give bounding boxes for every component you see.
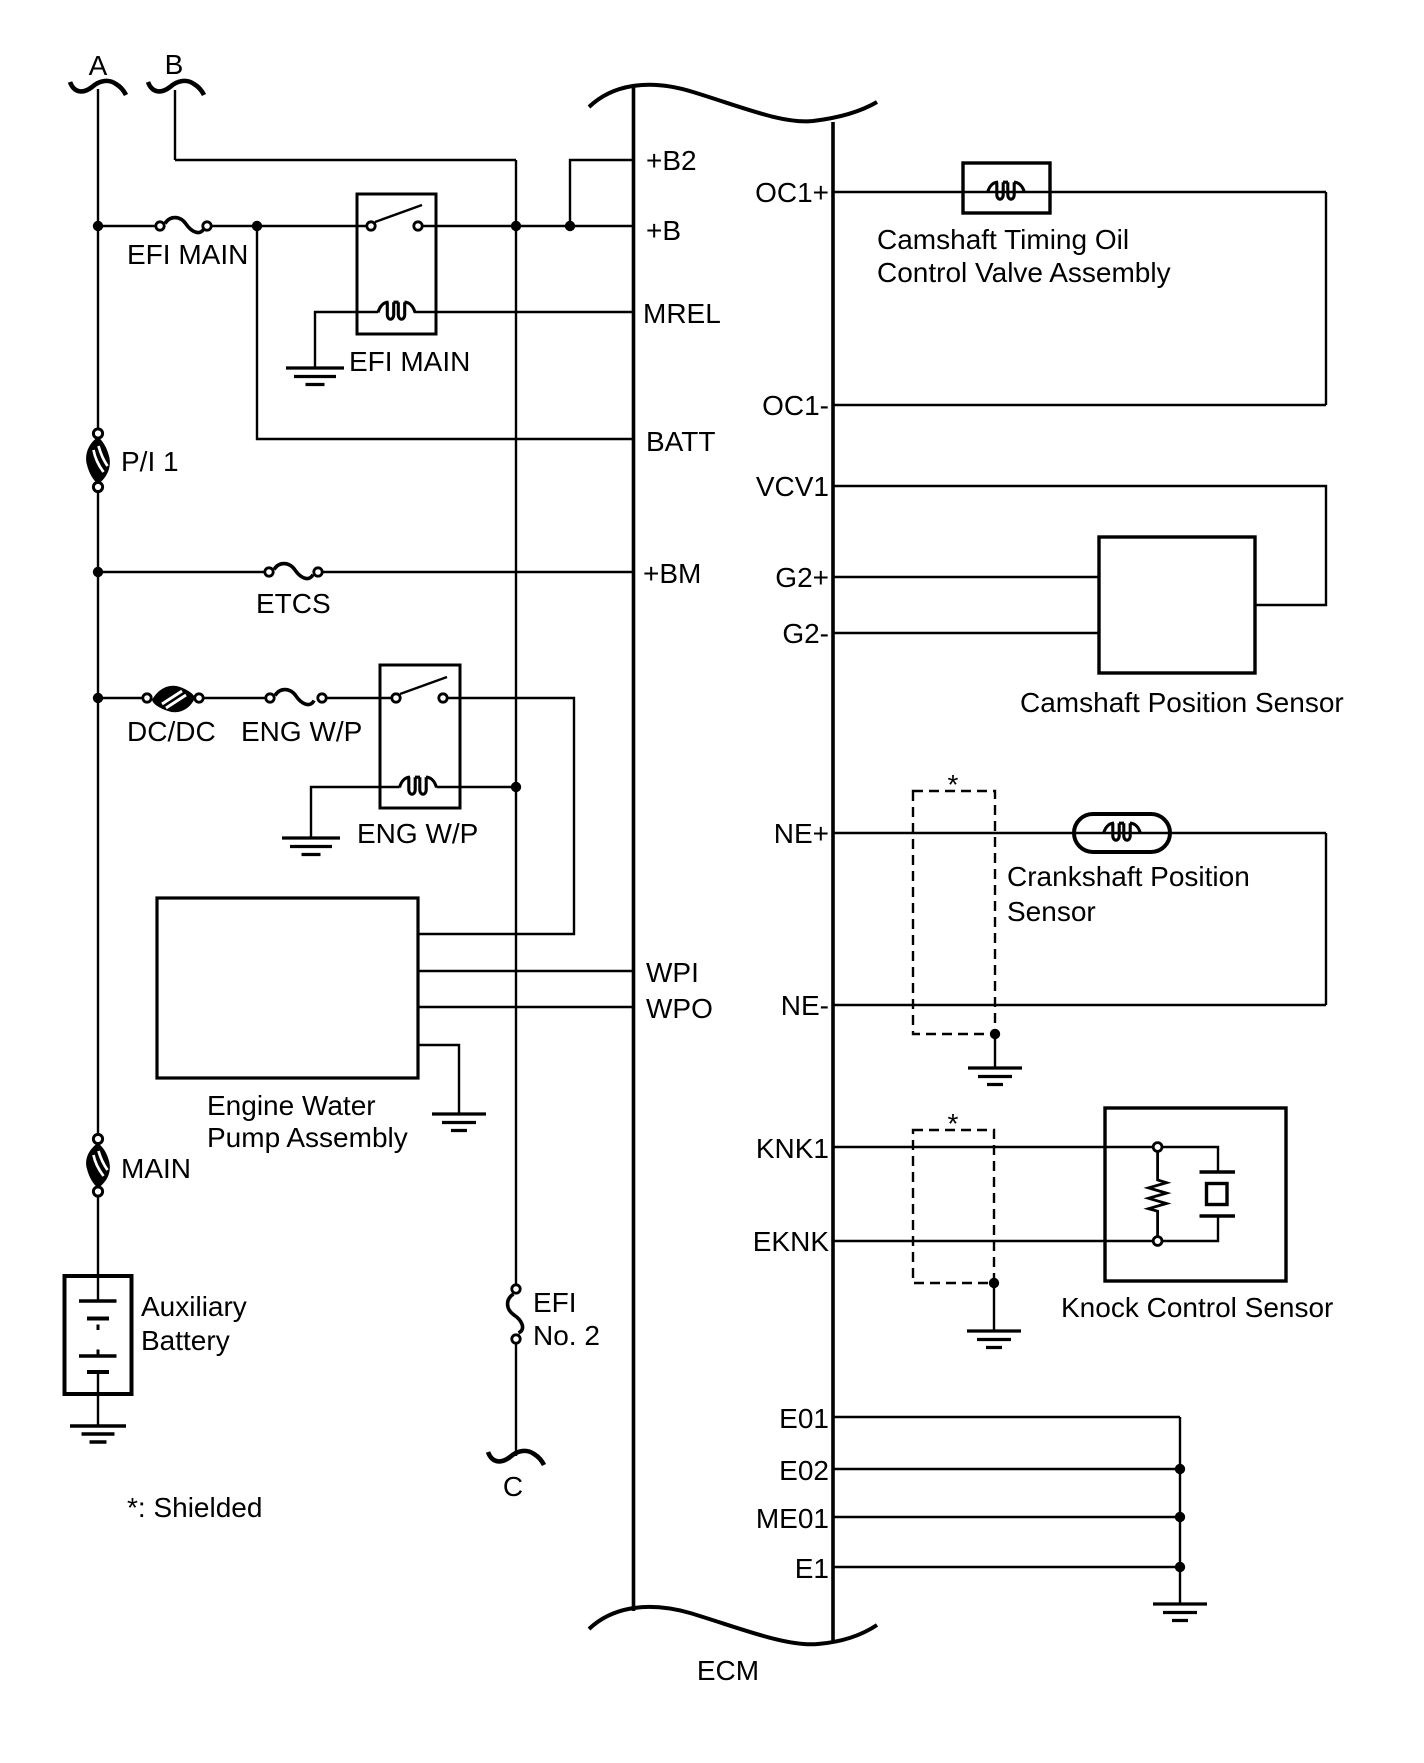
wire +B2 pin stub [570, 160, 634, 226]
node junction +BM [93, 567, 103, 577]
knock piezo bottom plate [1200, 1214, 1236, 1218]
svg-text:WPO: WPO [646, 993, 713, 1024]
battery plate short 2 [87, 1370, 109, 1374]
wire MREL coil left lead [315, 312, 378, 368]
fuse ETCS terminal circles [265, 568, 273, 576]
relay ENG W/P contact circles [392, 694, 400, 702]
ground ECM E lines [1153, 1604, 1207, 1621]
relay ENG W/P coil [400, 777, 437, 794]
svg-text:Battery: Battery [141, 1325, 230, 1356]
relay ENG W/P box [380, 665, 460, 808]
wire A vertical below MAIN to battery [97, 1192, 99, 1276]
crankshaft pickup coil [1104, 823, 1141, 840]
wire relay ENG W/P output [418, 698, 574, 934]
svg-text:*: * [948, 1108, 959, 1139]
wire +B line segment A to fuse [98, 225, 160, 227]
wire B vertical [174, 90, 176, 160]
svg-text:Engine Water: Engine Water [207, 1090, 376, 1121]
svg-text:P/I 1: P/I 1 [121, 446, 179, 477]
fuse EFI No.2 terminal circles [512, 1285, 520, 1293]
svg-text:VCV1: VCV1 [756, 471, 829, 502]
battery plate long 1 [79, 1299, 117, 1302]
svg-text:DC/DC: DC/DC [127, 716, 216, 747]
wire B horizontal to x515 [175, 159, 516, 161]
wire EFI No.2 to connector C [515, 1339, 517, 1456]
svg-text:WPI: WPI [646, 957, 699, 988]
svg-text:EFI MAIN: EFI MAIN [127, 239, 248, 270]
wire NE loop right vertical [1325, 833, 1327, 1005]
relay EFI MAIN coil [378, 302, 415, 319]
svg-text:Camshaft Timing Oil: Camshaft Timing Oil [877, 224, 1129, 255]
node junction KNK shield drain [989, 1278, 999, 1288]
solenoid box camshaft timing OCV [963, 163, 1050, 213]
shield box KNK (dashed) [913, 1130, 994, 1283]
svg-text:A: A [89, 50, 108, 81]
wire G2+ [833, 576, 1099, 578]
fusible link P/I 1 terminal circles [93, 429, 102, 438]
svg-text:EKNK: EKNK [753, 1226, 830, 1257]
svg-text:G2-: G2- [782, 618, 829, 649]
wire NE- [833, 1004, 1326, 1006]
wire battery to ground [97, 1394, 99, 1426]
knock sensor resistor [1149, 1152, 1167, 1236]
noise filter DC/DC terminal circles [143, 694, 151, 702]
wire A vertical below P/I 1 [97, 487, 99, 1139]
knock piezo element square [1207, 1184, 1228, 1205]
wire fuse to relay ENG W/P [322, 697, 396, 699]
svg-text:C: C [503, 1471, 523, 1502]
svg-text:OC1+: OC1+ [755, 177, 829, 208]
svg-text:E01: E01 [779, 1403, 829, 1434]
engine water pump assembly box [157, 898, 418, 1078]
fuse ETCS wave [274, 564, 313, 579]
svg-text:+B2: +B2 [646, 145, 697, 176]
wire A vertical main feed [97, 89, 99, 434]
wire E02 [833, 1468, 1180, 1470]
fuse ENG W/P terminal circles [266, 694, 274, 702]
svg-text:ENG W/P: ENG W/P [357, 818, 478, 849]
svg-text:MAIN: MAIN [121, 1153, 191, 1184]
knock sensor piezo top lead [1163, 1147, 1218, 1172]
svg-text:+B: +B [646, 215, 681, 246]
wire +B line relay to ECM [418, 225, 634, 227]
node junction coil to x515 [511, 782, 521, 792]
wire E01 [833, 1416, 1180, 1418]
wire OC1+ [833, 191, 1326, 193]
svg-text:BATT: BATT [646, 426, 715, 457]
svg-text:ME01: ME01 [756, 1503, 829, 1534]
node junction +B branch to BATT [252, 221, 262, 231]
svg-text:E1: E1 [795, 1553, 829, 1584]
wire vertical x515 from B down to EFI No.2 fuse [515, 160, 517, 1289]
svg-text:KNK1: KNK1 [756, 1133, 829, 1164]
solenoid coil OCV [988, 182, 1025, 199]
fusible link P/I 1 twist [86, 437, 110, 484]
node junction A/+B [93, 221, 103, 231]
fusible link MAIN twist [86, 1143, 110, 1188]
svg-text:Auxiliary: Auxiliary [141, 1291, 247, 1322]
wire OC1 loop right vertical [1325, 192, 1327, 405]
relay EFI MAIN box [357, 194, 436, 334]
relay EFI MAIN contact circles [367, 222, 375, 230]
wire +BM line [98, 571, 269, 573]
svg-text:ECM: ECM [697, 1655, 759, 1686]
svg-text:EFI: EFI [533, 1287, 577, 1318]
node junction +B / x515 [511, 221, 521, 231]
svg-text:No. 2: No. 2 [533, 1320, 600, 1351]
wire DC/DC feed line [98, 697, 147, 699]
node junction NE shield drain [990, 1029, 1000, 1039]
shield box NE (dashed) [913, 791, 995, 1034]
wire E1 [833, 1566, 1180, 1568]
ground NE shield [968, 1068, 1022, 1085]
node junction E02 [1175, 1464, 1185, 1474]
wire MREL coil right lead to ECM [414, 311, 634, 313]
battery internal top stub [97, 1276, 99, 1301]
camshaft position sensor box [1099, 537, 1255, 673]
node junction +B2 tie to +B [565, 221, 575, 231]
fuse EFI MAIN wave [165, 218, 204, 233]
noise filter DC/DC twist [152, 686, 195, 712]
knock piezo top plate [1200, 1170, 1236, 1174]
ECM connector left edge [632, 87, 636, 1611]
battery plate long 2 [79, 1354, 117, 1357]
svg-text:OC1-: OC1- [762, 390, 829, 421]
wire E ground bus vertical [1179, 1417, 1181, 1604]
wire WPO [418, 1006, 634, 1008]
battery dashed middle [97, 1325, 100, 1356]
ground pump assembly [432, 1114, 486, 1131]
wire WPI [418, 970, 634, 972]
knock control sensor box [1105, 1108, 1286, 1281]
ECM connector right edge [831, 122, 835, 1642]
knock sensor terminal circles [1153, 1143, 1162, 1152]
ECM connector bottom edge wave [589, 1607, 877, 1644]
wire ENG W/P coil right lead [437, 786, 517, 788]
node junction E1 [1175, 1562, 1185, 1572]
wire ME01 [833, 1516, 1180, 1518]
ground auxiliary battery [70, 1426, 126, 1442]
node junction DC/DC [93, 693, 103, 703]
wire +B line fuse to relay contact [207, 225, 371, 227]
node junction ME01 [1175, 1512, 1185, 1522]
auxiliary battery box [65, 1276, 132, 1394]
crankshaft position sensor pickup oval [1074, 814, 1170, 852]
knock sensor piezo bottom lead [1163, 1216, 1218, 1241]
wire +BM line fuse to ECM [318, 571, 634, 573]
wire KNK shield drain [993, 1283, 995, 1331]
svg-text:Control Valve Assembly: Control Valve Assembly [877, 257, 1171, 288]
svg-text:G2+: G2+ [775, 562, 829, 593]
wire NE shield drain [994, 1034, 996, 1068]
relay EFI MAIN switch blade [375, 205, 422, 222]
svg-text:*: * [948, 769, 959, 800]
battery internal bottom stub [97, 1372, 99, 1394]
svg-text:*: Shielded: *: Shielded [127, 1492, 262, 1523]
ground KNK shield [967, 1331, 1021, 1348]
relay ENG W/P switch blade [400, 677, 447, 694]
battery plate short 1 [87, 1317, 109, 1321]
wire G2- [833, 632, 1099, 634]
svg-text:NE+: NE+ [774, 818, 829, 849]
fuse EFI No.2 wave (vertical) [508, 1294, 523, 1333]
svg-text:E02: E02 [779, 1455, 829, 1486]
wire OC1- [833, 404, 1326, 406]
connector C arc [488, 1451, 544, 1465]
svg-text:Sensor: Sensor [1007, 896, 1096, 927]
wire NE+ [833, 832, 1326, 834]
svg-text:Knock Control Sensor: Knock Control Sensor [1061, 1292, 1333, 1323]
connector A arc [70, 81, 126, 95]
fuse ENG W/P wave [275, 690, 314, 705]
wire KNK1 [833, 1146, 1152, 1148]
ground EFI MAIN relay [286, 368, 344, 385]
wire ENG W/P coil left lead [311, 787, 400, 838]
svg-text:B: B [165, 49, 184, 80]
svg-text:MREL: MREL [643, 298, 721, 329]
wire BATT branch [257, 226, 634, 439]
svg-text:+BM: +BM [643, 558, 701, 589]
fusible link MAIN terminal circles [93, 1134, 102, 1143]
ground ENG W/P relay [282, 838, 340, 855]
wire EKNK [833, 1240, 1152, 1242]
wire pump ground lead [418, 1045, 459, 1114]
svg-text:Pump Assembly: Pump Assembly [207, 1122, 408, 1153]
fuse EFI MAIN terminal circles [156, 222, 164, 230]
ECM connector top edge wave [589, 85, 877, 122]
svg-text:NE-: NE- [781, 990, 829, 1021]
wire DC/DC to fuse ENG W/P [199, 697, 270, 699]
wire VCV1 [833, 486, 1326, 605]
svg-text:ENG W/P: ENG W/P [241, 716, 362, 747]
connector B arc [148, 81, 204, 95]
svg-text:EFI MAIN: EFI MAIN [349, 346, 470, 377]
svg-text:Camshaft Position Sensor: Camshaft Position Sensor [1020, 687, 1344, 718]
svg-text:ETCS: ETCS [256, 588, 331, 619]
svg-text:Crankshaft Position: Crankshaft Position [1007, 861, 1250, 892]
